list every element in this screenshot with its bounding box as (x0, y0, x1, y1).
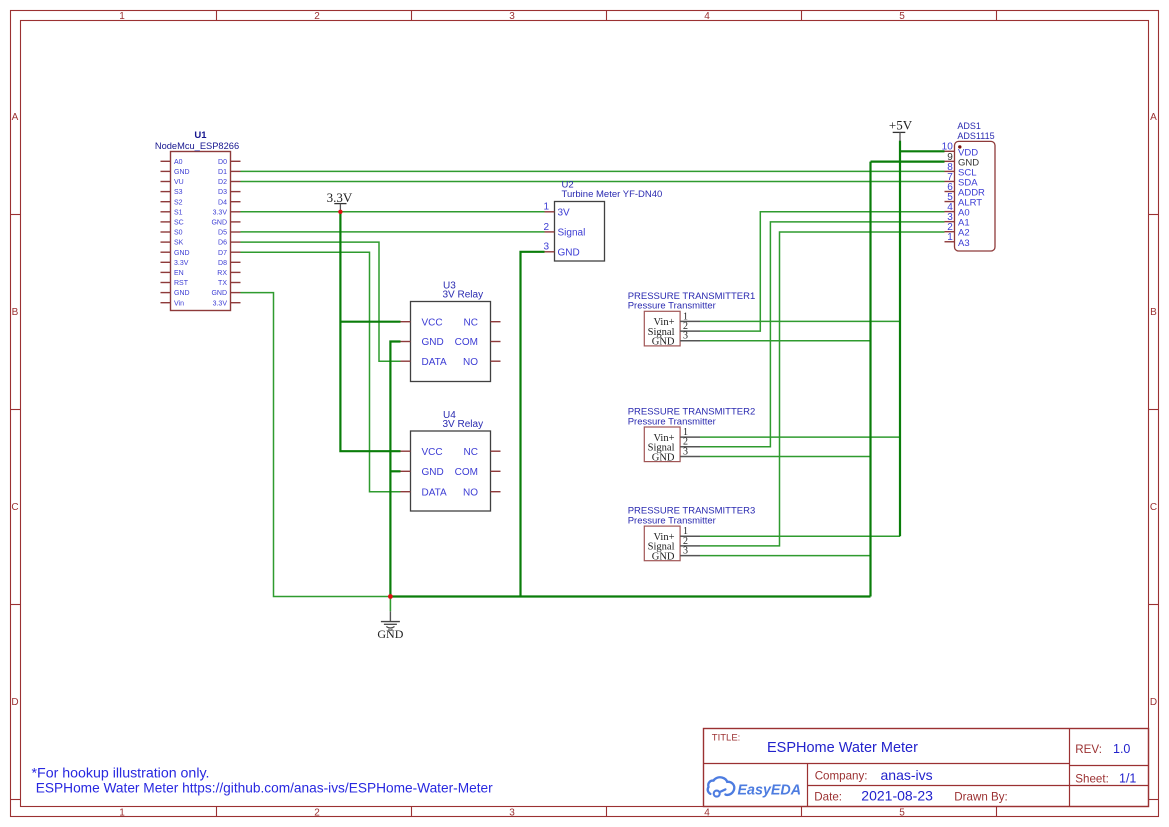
svg-text:DATA: DATA (422, 487, 448, 498)
svg-text:Pressure Transmitter: Pressure Transmitter (628, 516, 716, 527)
svg-text:U1: U1 (194, 130, 207, 141)
svg-text:GND: GND (652, 337, 675, 348)
svg-text:3.3V: 3.3V (213, 209, 228, 216)
svg-text:3: 3 (543, 242, 549, 253)
svg-text:GND: GND (652, 551, 675, 562)
svg-text:5: 5 (899, 808, 905, 819)
svg-text:Signal: Signal (558, 228, 586, 239)
svg-text:Turbine Meter YF-DN40: Turbine Meter YF-DN40 (562, 189, 663, 200)
svg-text:COM: COM (455, 337, 478, 348)
svg-text:Company:: Company: (815, 770, 868, 783)
svg-text:4: 4 (704, 11, 710, 22)
svg-text:NC: NC (464, 317, 478, 328)
svg-text:B: B (12, 307, 19, 318)
svg-text:1: 1 (947, 232, 953, 243)
svg-text:Pressure Transmitter: Pressure Transmitter (628, 416, 716, 427)
svg-text:3: 3 (683, 546, 688, 557)
svg-text:2: 2 (314, 11, 320, 22)
svg-text:S0: S0 (174, 230, 183, 237)
svg-text:5: 5 (899, 11, 905, 22)
svg-text:GND: GND (174, 250, 190, 257)
svg-text:1: 1 (119, 11, 125, 22)
svg-text:GND: GND (377, 627, 403, 641)
svg-text:ESPHome Water Meter: ESPHome Water Meter (767, 740, 918, 756)
svg-text:3V: 3V (558, 207, 571, 218)
svg-text:S1: S1 (174, 209, 183, 216)
svg-text:NC: NC (464, 447, 478, 458)
svg-text:Vin: Vin (174, 300, 184, 307)
svg-text:D: D (11, 697, 18, 708)
svg-text:D5: D5 (218, 230, 227, 237)
svg-text:GND: GND (174, 169, 190, 176)
svg-text:EN: EN (174, 270, 184, 277)
svg-text:D2: D2 (218, 179, 227, 186)
svg-text:S2: S2 (174, 199, 183, 206)
svg-text:GND: GND (558, 247, 580, 258)
svg-text:anas-ivs: anas-ivs (881, 767, 933, 783)
svg-text:A0: A0 (174, 159, 183, 166)
svg-text:3V Relay: 3V Relay (443, 419, 484, 430)
svg-text:ADS1115: ADS1115 (957, 131, 994, 141)
svg-text:GND: GND (211, 220, 227, 227)
svg-text:C: C (1150, 502, 1157, 513)
svg-text:1: 1 (119, 808, 125, 819)
svg-text:2: 2 (543, 222, 549, 233)
svg-text:TITLE:: TITLE: (712, 733, 741, 744)
svg-text:1/1: 1/1 (1119, 772, 1136, 786)
svg-text:2: 2 (314, 808, 320, 819)
svg-text:GND: GND (422, 337, 444, 348)
svg-text:GND: GND (211, 290, 227, 297)
svg-text:Date:: Date: (814, 790, 842, 803)
svg-text:D3: D3 (218, 189, 227, 196)
svg-text:ADS1: ADS1 (957, 121, 981, 131)
svg-text:3.3V: 3.3V (327, 190, 353, 205)
svg-text:A: A (1150, 112, 1157, 123)
svg-text:Pressure Transmitter: Pressure Transmitter (628, 301, 716, 312)
svg-text:+5V: +5V (889, 118, 913, 133)
svg-text:D0: D0 (218, 159, 227, 166)
svg-text:COM: COM (455, 467, 478, 478)
svg-text:VCC: VCC (422, 317, 443, 328)
svg-text:GND: GND (652, 452, 675, 463)
svg-text:3: 3 (683, 331, 688, 342)
svg-text:D1: D1 (218, 169, 227, 176)
svg-text:A: A (12, 112, 19, 123)
svg-text:VCC: VCC (422, 447, 443, 458)
svg-text:*For hookup illustration only.: *For hookup illustration only. (32, 765, 210, 781)
svg-text:ESPHome Water Meter https://gi: ESPHome Water Meter https://github.com/a… (36, 780, 493, 795)
svg-text:D4: D4 (218, 199, 227, 206)
svg-text:3: 3 (509, 808, 515, 819)
svg-text:2021-08-23: 2021-08-23 (861, 788, 933, 804)
svg-text:REV:: REV: (1075, 743, 1102, 756)
svg-text:3V Relay: 3V Relay (443, 289, 484, 300)
svg-text:VU: VU (174, 179, 184, 186)
svg-text:B: B (1150, 307, 1157, 318)
svg-text:NO: NO (463, 487, 478, 498)
svg-text:Drawn By:: Drawn By: (954, 790, 1007, 803)
svg-text:4: 4 (704, 808, 710, 819)
svg-text:SC: SC (174, 220, 184, 227)
svg-text:NodeMcu_ESP8266: NodeMcu_ESP8266 (155, 141, 239, 151)
svg-text:Sheet:: Sheet: (1075, 772, 1109, 785)
svg-text:EasyEDA: EasyEDA (738, 782, 802, 798)
svg-text:NO: NO (463, 357, 478, 368)
svg-text:1.0: 1.0 (1113, 742, 1130, 756)
svg-text:DATA: DATA (422, 357, 448, 368)
svg-text:3: 3 (683, 446, 688, 457)
svg-text:3: 3 (509, 11, 515, 22)
svg-text:S3: S3 (174, 189, 183, 196)
svg-text:3.3V: 3.3V (213, 300, 228, 307)
svg-text:A3: A3 (958, 238, 970, 249)
svg-text:D: D (1150, 697, 1157, 708)
svg-text:3.3V: 3.3V (174, 260, 189, 267)
svg-text:GND: GND (422, 467, 444, 478)
svg-text:D7: D7 (218, 250, 227, 257)
svg-text:SK: SK (174, 240, 184, 247)
svg-text:D6: D6 (218, 240, 227, 247)
svg-text:RST: RST (174, 280, 189, 287)
svg-text:1: 1 (543, 202, 549, 213)
svg-text:TX: TX (218, 280, 227, 287)
svg-text:GND: GND (174, 290, 190, 297)
svg-text:C: C (11, 502, 18, 513)
svg-text:RX: RX (217, 270, 227, 277)
svg-text:D8: D8 (218, 260, 227, 267)
